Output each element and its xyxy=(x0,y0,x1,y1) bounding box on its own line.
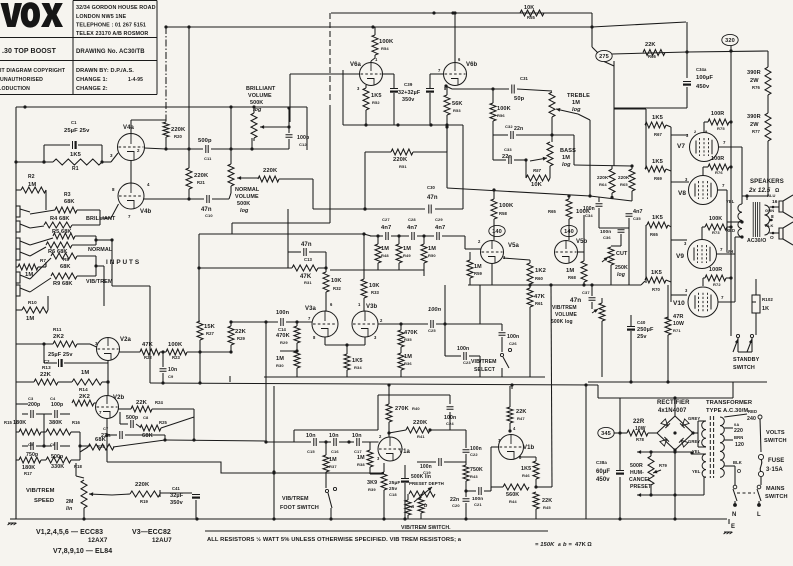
wire xyxy=(667,285,669,317)
svg-text:7: 7 xyxy=(99,410,102,415)
svg-text:R43: R43 xyxy=(470,474,478,479)
junction xyxy=(329,517,332,520)
svg-text:GREY: GREY xyxy=(688,416,700,421)
wire xyxy=(693,432,698,434)
junction xyxy=(524,158,527,161)
svg-text:4n7: 4n7 xyxy=(407,225,417,231)
wire xyxy=(195,500,197,519)
wire xyxy=(724,465,735,467)
wire xyxy=(95,236,97,245)
wire xyxy=(36,413,44,415)
wire xyxy=(601,298,603,303)
svg-text:R68: R68 xyxy=(568,275,577,280)
svg-text:BRN: BRN xyxy=(734,435,743,440)
wire xyxy=(36,445,44,447)
wire xyxy=(598,208,600,228)
wire xyxy=(383,73,395,75)
svg-text:10K: 10K xyxy=(531,182,543,188)
svg-text:1K5: 1K5 xyxy=(652,115,664,121)
wire xyxy=(551,117,553,142)
junction xyxy=(94,264,97,267)
junction xyxy=(105,433,108,436)
wire xyxy=(16,106,307,108)
svg-text:C24: C24 xyxy=(446,421,454,426)
wire xyxy=(574,165,632,166)
wire xyxy=(701,227,703,240)
wire xyxy=(103,266,105,306)
wire xyxy=(130,120,132,134)
junction xyxy=(164,25,167,28)
svg-text:2x 12.5: 2x 12.5 xyxy=(748,187,771,194)
svg-text:R32: R32 xyxy=(333,286,342,291)
wire xyxy=(339,441,354,443)
resistor R55 xyxy=(520,10,544,16)
resistor R38 1M xyxy=(367,450,373,467)
speaker 2 xyxy=(779,222,793,245)
junction xyxy=(451,11,454,14)
svg-text:C38a: C38a xyxy=(596,460,607,465)
wire xyxy=(631,166,633,169)
svg-text:R31: R31 xyxy=(304,280,312,285)
wire xyxy=(519,456,536,458)
svg-text:R29: R29 xyxy=(237,336,246,341)
wire xyxy=(491,486,503,488)
svg-text:SPEED: SPEED xyxy=(34,498,54,504)
junction xyxy=(673,450,676,453)
wire xyxy=(370,473,384,475)
svg-text:R75: R75 xyxy=(717,126,725,131)
junction xyxy=(690,451,693,454)
jack brilliant 1 xyxy=(16,206,20,217)
svg-text:LONDON NW5 1NE: LONDON NW5 1NE xyxy=(76,14,127,20)
svg-text:12AU7: 12AU7 xyxy=(152,537,172,544)
svg-text:V2a: V2a xyxy=(120,337,132,343)
wire xyxy=(374,55,376,58)
wire xyxy=(30,278,51,292)
junction xyxy=(673,448,676,451)
svg-text:V1b: V1b xyxy=(523,445,535,451)
svg-text:R58: R58 xyxy=(499,211,508,216)
svg-text:VOLUME: VOLUME xyxy=(555,312,578,318)
wire xyxy=(444,461,466,463)
junction xyxy=(510,383,513,386)
junction xyxy=(691,431,694,434)
wire xyxy=(364,337,366,345)
wire xyxy=(288,139,290,149)
junction xyxy=(528,283,531,286)
svg-text:C16: C16 xyxy=(331,449,339,454)
svg-text:68K: 68K xyxy=(64,199,75,205)
svg-text:C33: C33 xyxy=(504,147,512,152)
junction xyxy=(110,238,113,241)
wire xyxy=(20,252,30,256)
svg-text:C14: C14 xyxy=(278,327,287,332)
terminal L xyxy=(757,503,761,507)
junction xyxy=(618,431,621,434)
svg-text:100n: 100n xyxy=(428,307,442,313)
svg-text:1M: 1M xyxy=(381,246,389,252)
wire xyxy=(383,463,385,472)
wire xyxy=(469,355,480,357)
wire xyxy=(166,148,203,150)
svg-text:1K: 1K xyxy=(762,306,769,312)
svg-text:R10: R10 xyxy=(28,300,37,305)
wire xyxy=(666,125,671,127)
terminal N xyxy=(733,503,737,507)
wire xyxy=(729,166,731,168)
svg-text:C25: C25 xyxy=(428,328,436,333)
wire xyxy=(329,105,331,223)
svg-text:R14: R14 xyxy=(79,387,88,392)
wire xyxy=(767,51,769,67)
svg-text:R78: R78 xyxy=(636,437,645,442)
svg-text:250K: 250K xyxy=(615,265,628,271)
svg-text:b =: b = xyxy=(563,542,572,548)
svg-text:25µF 25v: 25µF 25v xyxy=(48,352,73,358)
wire xyxy=(583,215,585,261)
junction xyxy=(590,25,593,28)
wire xyxy=(591,13,593,27)
wire xyxy=(729,121,731,123)
wire xyxy=(231,223,233,234)
svg-text:FOOT SWITCH: FOOT SWITCH xyxy=(280,505,319,511)
svg-text:500p: 500p xyxy=(198,138,212,144)
wire xyxy=(704,476,706,478)
wire xyxy=(391,235,409,237)
capacitor C35 4n7 xyxy=(626,214,633,216)
wire xyxy=(143,198,204,200)
svg-text:I N P U T S: I N P U T S xyxy=(106,259,140,266)
svg-text:56K: 56K xyxy=(452,101,463,107)
svg-text:V2b: V2b xyxy=(113,395,125,401)
junction xyxy=(740,220,743,223)
wire xyxy=(730,310,732,336)
svg-text:4: 4 xyxy=(147,182,150,187)
svg-text:10W: 10W xyxy=(673,321,684,327)
wire xyxy=(362,441,379,443)
wire xyxy=(64,362,89,364)
wire xyxy=(230,345,232,352)
svg-text:1K2: 1K2 xyxy=(535,268,546,274)
junction xyxy=(229,320,232,323)
junction xyxy=(550,133,553,136)
wire xyxy=(22,445,28,447)
svg-text:7: 7 xyxy=(720,247,723,252)
junction xyxy=(345,343,348,346)
svg-text:1M: 1M xyxy=(566,268,574,274)
svg-text:MAINS: MAINS xyxy=(766,486,785,492)
tube V6b xyxy=(444,63,467,86)
wire xyxy=(407,515,409,519)
wire xyxy=(101,145,103,162)
svg-text:HUM-: HUM- xyxy=(630,470,644,476)
tube V5b xyxy=(555,241,578,264)
wire xyxy=(253,107,255,113)
svg-text:32/34 GORDON HOUSE ROAD: 32/34 GORDON HOUSE ROAD xyxy=(76,5,156,11)
wire xyxy=(251,138,253,149)
junction xyxy=(508,429,511,432)
wire xyxy=(374,27,376,35)
svg-text:VIB/TREM: VIB/TREM xyxy=(552,305,577,311)
wire xyxy=(724,427,733,429)
svg-text:2W: 2W xyxy=(750,122,759,128)
svg-text:BLK: BLK xyxy=(765,223,774,228)
wire xyxy=(549,166,551,178)
svg-text:3·15A: 3·15A xyxy=(766,467,783,473)
wire xyxy=(388,433,390,437)
svg-text:RED: RED xyxy=(748,409,757,414)
wire xyxy=(30,226,44,228)
svg-text:.30 TOP BOOST: .30 TOP BOOST xyxy=(2,48,57,55)
wire xyxy=(655,494,704,496)
wire xyxy=(43,344,45,363)
svg-text:Ω: Ω xyxy=(775,188,780,194)
svg-text:220K: 220K xyxy=(135,482,150,488)
junction xyxy=(590,283,593,286)
svg-text:R34: R34 xyxy=(354,365,362,370)
wire xyxy=(75,463,77,476)
svg-text:R64: R64 xyxy=(599,182,607,187)
svg-text:7: 7 xyxy=(128,214,131,219)
svg-text:1K5: 1K5 xyxy=(352,358,363,364)
svg-text:100n: 100n xyxy=(457,346,469,352)
svg-text:10n: 10n xyxy=(168,367,177,373)
svg-text:C32: C32 xyxy=(505,124,513,129)
resistor R66 xyxy=(643,50,665,56)
svg-text:TREBLE: TREBLE xyxy=(567,93,590,99)
svg-text:60µF: 60µF xyxy=(596,469,610,475)
wire xyxy=(44,413,52,415)
svg-text:R24: R24 xyxy=(155,400,164,405)
resistor R17 180K xyxy=(19,457,41,463)
wire xyxy=(733,489,737,501)
svg-text:1K5: 1K5 xyxy=(70,152,82,158)
wire xyxy=(423,270,425,276)
svg-text:R73: R73 xyxy=(712,230,720,235)
svg-text:R53: R53 xyxy=(453,108,461,113)
svg-text:22n: 22n xyxy=(514,126,523,132)
svg-text:R71: R71 xyxy=(673,328,681,333)
wire xyxy=(718,301,735,303)
svg-text:R76: R76 xyxy=(715,170,723,175)
wire xyxy=(614,432,621,434)
wire xyxy=(94,402,96,404)
wire xyxy=(377,263,379,270)
svg-text:b: b xyxy=(424,503,428,509)
junction xyxy=(264,440,267,443)
junction xyxy=(387,431,390,434)
svg-text:R23: R23 xyxy=(172,355,181,360)
wire xyxy=(378,269,424,271)
wire xyxy=(449,412,451,430)
resistor R27 15K xyxy=(197,321,203,340)
wire xyxy=(604,62,614,67)
junction xyxy=(492,188,495,191)
wire xyxy=(598,397,620,399)
junction xyxy=(94,238,97,241)
tube V6a xyxy=(360,63,383,86)
svg-text:1M: 1M xyxy=(276,356,284,362)
wire xyxy=(404,465,406,478)
svg-text:C40: C40 xyxy=(637,320,646,325)
svg-text:R16: R16 xyxy=(72,420,81,425)
svg-text:380K: 380K xyxy=(49,420,62,426)
wire xyxy=(107,382,109,396)
wire xyxy=(490,487,492,491)
svg-text:68K: 68K xyxy=(60,264,71,270)
svg-text:R70: R70 xyxy=(652,287,661,292)
wire xyxy=(296,368,298,377)
wire xyxy=(58,381,72,383)
wire xyxy=(30,238,53,245)
resistor R31 47K xyxy=(292,265,318,271)
wire xyxy=(491,264,493,286)
svg-text:V9: V9 xyxy=(676,253,684,260)
wire xyxy=(645,109,647,169)
svg-text:STANDBY: STANDBY xyxy=(733,357,760,363)
svg-text:C36: C36 xyxy=(603,235,611,240)
junction xyxy=(363,207,366,210)
svg-text:RECTIFIER: RECTIFIER xyxy=(657,400,690,406)
tube V2a xyxy=(97,338,120,361)
junction xyxy=(42,160,45,163)
wire xyxy=(760,419,761,452)
wire xyxy=(273,386,275,519)
svg-text:R54: R54 xyxy=(381,46,389,51)
wire xyxy=(509,386,511,407)
wire xyxy=(45,262,47,267)
svg-text:PRESET DEPTH: PRESET DEPTH xyxy=(409,481,444,486)
junction xyxy=(444,84,447,87)
svg-text:IT DIAGRAM COPYRIGHT: IT DIAGRAM COPYRIGHT xyxy=(0,68,66,74)
svg-text:1-4-95: 1-4-95 xyxy=(128,77,143,83)
wire xyxy=(630,331,632,382)
svg-text:68K: 68K xyxy=(142,433,154,439)
speaker 1 xyxy=(779,195,793,218)
wire xyxy=(16,161,53,163)
junction xyxy=(23,105,26,108)
svg-text:275: 275 xyxy=(599,54,609,60)
svg-text:C15: C15 xyxy=(307,449,315,454)
svg-text:R38: R38 xyxy=(357,462,365,467)
junction xyxy=(287,106,290,109)
wire xyxy=(751,338,753,352)
wire xyxy=(20,288,30,292)
wire xyxy=(445,355,461,357)
wire xyxy=(465,430,467,448)
junction xyxy=(685,50,688,53)
svg-text:12AX7: 12AX7 xyxy=(88,537,108,544)
svg-text:R18: R18 xyxy=(74,464,83,469)
tube V9 xyxy=(688,240,717,269)
svg-text:8: 8 xyxy=(112,187,115,192)
wire xyxy=(501,368,503,377)
junction xyxy=(295,349,298,352)
wire xyxy=(378,323,401,325)
wire xyxy=(198,234,200,268)
svg-text:R19: R19 xyxy=(140,499,149,504)
jack normal 1 xyxy=(16,238,20,249)
junction xyxy=(364,123,367,126)
wire xyxy=(468,284,641,286)
wire xyxy=(325,442,327,455)
wire xyxy=(365,110,367,125)
svg-text:C10: C10 xyxy=(205,213,213,218)
svg-text:1M: 1M xyxy=(562,155,570,161)
svg-text:1M: 1M xyxy=(26,316,34,322)
wire xyxy=(630,315,632,326)
wire xyxy=(111,204,119,218)
svg-text:TELEX 23170 A/B ROSMOR: TELEX 23170 A/B ROSMOR xyxy=(76,31,148,37)
wire xyxy=(404,483,406,519)
svg-text:R9 68K: R9 68K xyxy=(53,281,73,287)
wire xyxy=(692,453,706,455)
wire xyxy=(231,321,278,323)
wire xyxy=(112,494,130,495)
junction xyxy=(399,322,402,325)
resistor R77 390R xyxy=(765,113,771,141)
wire xyxy=(728,519,730,524)
wire xyxy=(619,477,621,519)
junction xyxy=(250,147,253,150)
wire xyxy=(102,381,108,383)
svg-text:VOLUME: VOLUME xyxy=(248,93,272,99)
junction xyxy=(187,197,190,200)
svg-text:47K: 47K xyxy=(142,342,154,348)
svg-text:R48: R48 xyxy=(381,253,389,258)
svg-text:V5b: V5b xyxy=(576,239,588,245)
svg-text:500K log: 500K log xyxy=(551,319,573,325)
resistor R44 560K xyxy=(503,484,529,490)
svg-text:CUT: CUT xyxy=(616,251,628,257)
resistor b xyxy=(418,498,424,513)
wire xyxy=(516,134,552,136)
svg-text:R77: R77 xyxy=(752,129,761,134)
wire xyxy=(330,508,332,519)
wire xyxy=(702,167,704,176)
resistor R65b 220K xyxy=(629,169,635,191)
wire xyxy=(199,233,364,235)
svg-text:1M: 1M xyxy=(428,246,436,252)
wire xyxy=(430,73,444,75)
svg-text:R44: R44 xyxy=(509,499,517,504)
svg-text:750K: 750K xyxy=(470,467,483,473)
svg-text:1K5: 1K5 xyxy=(651,270,663,276)
wire xyxy=(265,322,267,441)
svg-text:47n: 47n xyxy=(301,242,312,248)
wire xyxy=(96,265,104,267)
ground xyxy=(8,523,17,525)
svg-text:R46: R46 xyxy=(522,473,530,478)
wire xyxy=(535,457,537,461)
svg-text:500K: 500K xyxy=(237,201,250,207)
wire xyxy=(767,141,769,167)
jack brilliant 2 xyxy=(16,221,20,232)
svg-text:220K: 220K xyxy=(194,173,209,179)
wire xyxy=(697,433,699,447)
wire xyxy=(95,256,97,276)
wire xyxy=(469,278,471,285)
wire xyxy=(287,209,289,252)
wire xyxy=(726,190,728,250)
junction xyxy=(397,234,400,237)
wire xyxy=(760,477,762,485)
svg-text:220K: 220K xyxy=(618,175,630,180)
wire xyxy=(727,221,742,223)
wire xyxy=(449,395,451,404)
svg-text:C21: C21 xyxy=(474,502,482,507)
wire xyxy=(645,168,646,170)
